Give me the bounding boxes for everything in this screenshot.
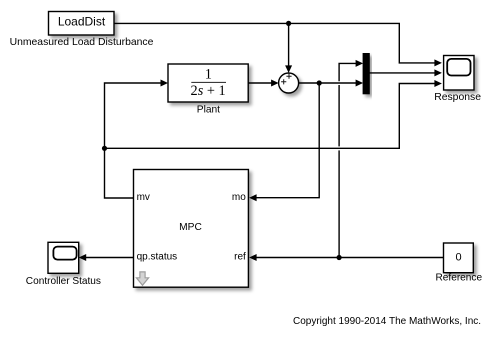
junction on ref wire (337, 255, 342, 260)
junction on mv wire (102, 146, 107, 151)
mux block (363, 54, 369, 94)
wire: MPC qp.status output to Controller Status scope (79, 254, 134, 261)
wire: branch down into Sum top input (285, 23, 292, 73)
svg-text:mv: mv (137, 192, 150, 203)
sum block (279, 73, 299, 93)
svg-text:LoadDist: LoadDist (58, 15, 106, 29)
transfer-function block Plant (168, 64, 248, 102)
wire: MPC mv output up to Plant input (105, 80, 169, 199)
wire: mv branch across to Response input 3 (105, 80, 442, 148)
svg-text:Unmeasured Load Disturbance: Unmeasured Load Disturbance (10, 37, 154, 48)
wire: LoadDist output across top (114, 23, 442, 66)
svg-text:2s + 1: 2s + 1 (191, 83, 226, 99)
svg-text:Plant: Plant (197, 104, 220, 115)
wire: Mux output to Response input 2 (369, 69, 442, 76)
svg-text:MPC: MPC (179, 222, 202, 233)
svg-text:1: 1 (205, 66, 212, 82)
wire: Sum output branch down to MPC mo input (249, 83, 319, 201)
svg-text:Response: Response (434, 92, 481, 103)
MPC controller block (134, 170, 249, 288)
junction on Sum output (317, 80, 322, 85)
svg-text:0: 0 (456, 252, 462, 264)
junction on LoadDist wire (286, 21, 291, 26)
svg-text:Controller Status: Controller Status (26, 276, 101, 287)
svg-text:Copyright 1990-2014 The MathWo: Copyright 1990-2014 The MathWorks, Inc. (293, 316, 481, 327)
wire: ref branch up to Mux input 1 (crosses two lines) (339, 60, 363, 258)
wire: Plant output to Sum (248, 80, 278, 87)
scope block Response (444, 56, 474, 91)
svg-text:mo: mo (232, 192, 246, 203)
svg-text:qp.status: qp.status (137, 251, 178, 262)
constant block LoadDist (49, 12, 115, 36)
wire: Sum output to Mux input 2 (299, 80, 363, 87)
wire: Reference output to MPC ref input (249, 254, 443, 261)
gray download-arrow badge (136, 272, 148, 285)
svg-text:ref: ref (234, 251, 246, 262)
scope block Controller Status (48, 242, 79, 273)
svg-text:Reference: Reference (436, 273, 483, 284)
constant block Reference (444, 243, 474, 273)
